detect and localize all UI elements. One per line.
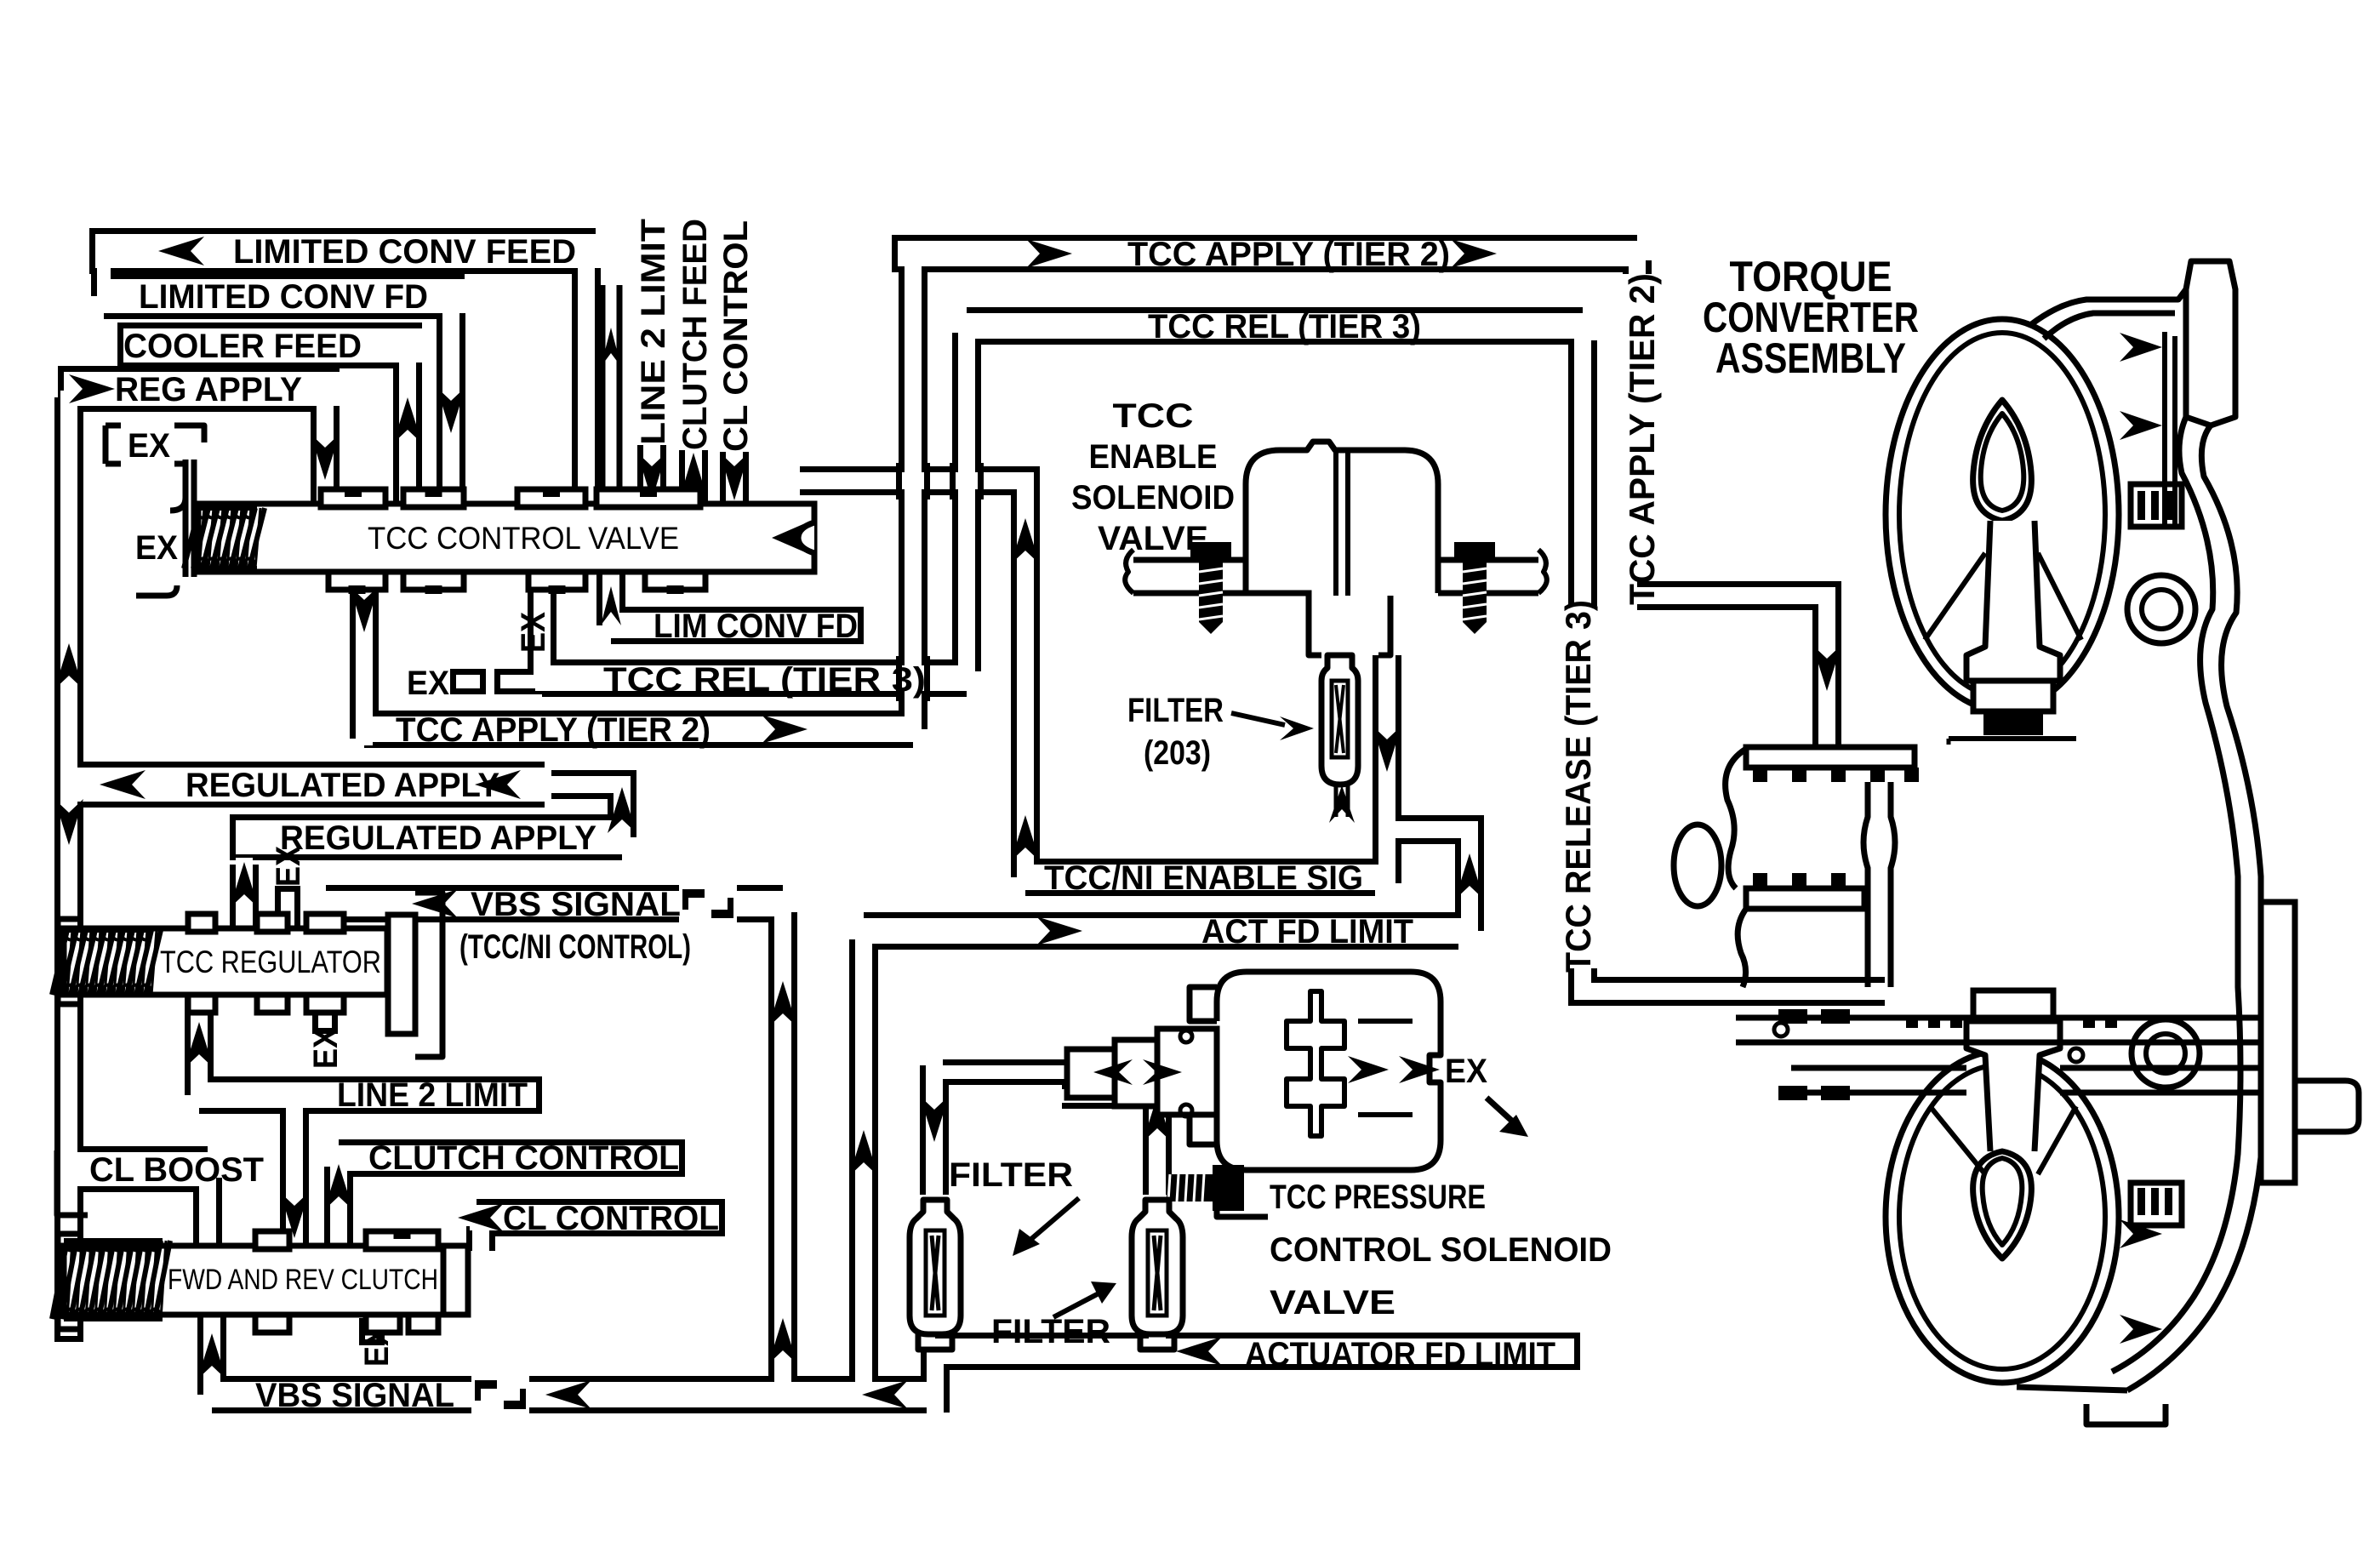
svg-text:LINE 2 LIMIT: LINE 2 LIMIT (337, 1076, 528, 1114)
arrow filter2 label pointer (1053, 1292, 1102, 1317)
converter spokes bottom (1930, 1106, 1985, 1174)
arrow (1373, 726, 1401, 772)
pressure solenoid inlet step (1190, 987, 1217, 1144)
svg-text:SOLENOID: SOLENOID (1071, 479, 1235, 517)
arrow (762, 715, 808, 744)
converter shaft seals (1778, 1009, 1807, 1024)
wire TCC APPLY (TIER 2) top channel (892, 235, 1637, 272)
valve TCC CONTROL VALVE body (198, 504, 814, 572)
connector symbol VBS bottom (471, 1376, 529, 1413)
arrow (1451, 239, 1497, 268)
wire LINE 2 LIMIT stub (637, 445, 666, 511)
EX hook below-left of spring (136, 585, 177, 596)
svg-text:LIM CONV FD: LIM CONV FD (654, 608, 858, 645)
converter pump drive slab upper (1746, 747, 1915, 768)
wire LIM CONV FD label channel (611, 607, 864, 644)
arrow (437, 387, 465, 433)
filter (203) capsule (1321, 655, 1358, 785)
converter hub blocks top (1973, 681, 2053, 711)
pressure solenoid chamber (1358, 1021, 1413, 1115)
wire LIMITED CONV FEED channel (89, 228, 596, 274)
wire TCC APPLY vertical riser A (899, 260, 927, 729)
svg-text:LIMITED CONV FEED: LIMITED CONV FEED (233, 233, 576, 271)
bolt left on plate (1190, 542, 1231, 634)
converter hub horizontal lines (1949, 736, 2076, 741)
svg-text:FILTER: FILTER (1127, 692, 1224, 729)
end plug TCC CONTROL VALVE spring (191, 459, 197, 577)
arrow (230, 862, 259, 908)
arrow (458, 1203, 504, 1232)
spring TCC CONTROL VALVE (184, 508, 265, 568)
arrow (54, 643, 83, 689)
svg-text:REGULATED APPLY: REGULATED APPLY (185, 767, 499, 804)
arrow (601, 586, 621, 625)
wire regulated apply leg (230, 865, 259, 932)
arrow (69, 374, 115, 403)
valve TCC REGULATOR lands (188, 914, 215, 932)
svg-text:TCC REL (TIER 3): TCC REL (TIER 3) (603, 661, 926, 699)
wire TCC REL (TIER 3) top channel (967, 307, 1583, 345)
converter bottom flat and lug (2017, 1387, 2166, 1424)
wire FWD valve bottom leg (197, 1315, 226, 1395)
arrow (1026, 239, 1072, 268)
svg-text:FILTER: FILTER (991, 1313, 1110, 1350)
wire TCC RELEASE bottom run (1583, 968, 1885, 991)
converter spokes top (1925, 553, 1985, 640)
valve FWD AND REV CLUTCH lands (255, 1231, 289, 1249)
arrow (849, 1130, 878, 1176)
svg-text:TCC RELEASE (TIER 3): TCC RELEASE (TIER 3) (1558, 600, 1598, 973)
wire regulated apply U link (545, 785, 622, 837)
solenoid lower body (1309, 596, 1390, 655)
svg-text:EX: EX (307, 1028, 345, 1069)
wire CL CONTROL stub (720, 452, 749, 511)
arrow (720, 453, 749, 500)
wire REG APPLY channel (58, 366, 340, 412)
solenoid mounting plate (1133, 560, 1538, 596)
wire LINE 2 LIMIT to FWD leg (280, 1104, 309, 1249)
svg-text:LIMITED CONV FD: LIMITED CONV FD (139, 278, 428, 316)
arrows inside converter bottom (2120, 1219, 2162, 1248)
converter central web (1863, 782, 1895, 987)
wire feed leg with up arrow (600, 285, 623, 511)
wire LIMITED CONV FD channel (104, 273, 465, 319)
converter stator stem top (1966, 521, 2060, 681)
wire filter2 bottom leg (1143, 1336, 1172, 1351)
wire VBS SIGNAL (TCC/NI CONTROL) channel (326, 885, 783, 922)
arrow (197, 1333, 226, 1379)
wire EX stub (450, 669, 486, 694)
wire TCC APPLY leg down (350, 568, 379, 739)
svg-text:TCC APPLY (TIER 2): TCC APPLY (TIER 2) (1622, 273, 1662, 605)
arrow (1011, 815, 1040, 861)
svg-text:REGULATED APPLY: REGULATED APPLY (280, 819, 596, 857)
arrow (1455, 853, 1484, 899)
wire TCC REL (TIER 3) lower channel (542, 659, 967, 697)
svg-text:ACT FD LIMIT: ACT FD LIMIT (1201, 913, 1413, 950)
wire filter2 top leg (1143, 1096, 1172, 1195)
wire TCC/NI ENABLE SIG channel (1025, 859, 1375, 896)
svg-text:EX: EX (128, 427, 170, 465)
valve TCC CONTROL VALVE right end notch (798, 504, 814, 572)
wire filter1 bottom leg (921, 1351, 950, 1413)
arrow (1812, 645, 1841, 691)
arrow (1036, 916, 1082, 945)
converter clutch plate ticks bottom (2137, 1188, 2172, 1215)
wire TCC APPLY (TIER 2) lower channel (364, 711, 913, 748)
wire solenoid drop leg (1373, 655, 1401, 883)
wire CLUTCH CONTROL channel (339, 1139, 685, 1177)
converter hub blocks bottom (1973, 990, 2053, 1021)
filter capsule (1132, 1200, 1183, 1334)
end cap FWD AND REV CLUTCH (443, 1246, 468, 1315)
converter turbine teardrop bottom (1973, 1151, 2032, 1259)
wire COOLER FEED leg (393, 354, 422, 511)
arrows inside pressure solenoid (1348, 1056, 1389, 1083)
arrow (311, 434, 340, 480)
converter pump cover oval (1674, 825, 1721, 906)
arrow (920, 1096, 949, 1142)
converter top lug (2186, 261, 2235, 425)
FWD spring seat bracket (58, 1234, 82, 1329)
svg-text:TCC/NI ENABLE SIG: TCC/NI ENABLE SIG (1044, 859, 1363, 897)
arrow (862, 1380, 908, 1409)
svg-text:ENABLE: ENABLE (1089, 438, 1218, 476)
wire VBS riser (768, 912, 797, 1388)
EX bracket shapes upper left (106, 425, 121, 464)
converter pump drive slab lower (1746, 888, 1864, 909)
svg-text:COOLER FEED: COOLER FEED (123, 328, 362, 365)
wire TCC REL vertical riser B (952, 333, 981, 671)
svg-text:TCC APPLY (TIER 2): TCC APPLY (TIER 2) (396, 711, 711, 749)
valve TCC CONTROL VALVE lands bottom (328, 572, 385, 590)
wire left vertical channel (54, 397, 83, 1342)
svg-text:EX: EX (135, 529, 178, 567)
wire CL CONTROL channel (477, 1199, 725, 1236)
wire VBS SIGNAL bottom channel (212, 1376, 935, 1413)
svg-text:TCC REL (TIER 3): TCC REL (TIER 3) (1148, 308, 1421, 345)
arrow (679, 453, 708, 500)
wire CLUTCH FEED stub (679, 450, 708, 511)
end piece TCC REGULATOR (388, 915, 415, 1034)
svg-text:EX: EX (1445, 1053, 1487, 1090)
svg-text:TCC APPLY (TIER 2): TCC APPLY (TIER 2) (1127, 236, 1450, 273)
wire ACT FD vertical D (849, 939, 878, 1388)
wire TCC APPLY corner stub (1623, 260, 1652, 274)
spring FWD AND REV CLUTCH (52, 1241, 170, 1319)
valve TCC REGULATOR body (64, 928, 387, 995)
wire LIM CONV FD down leg (437, 305, 465, 511)
converter clutch block bottom (2131, 1183, 2182, 1225)
wire valve outlet to TCC/NI riser C (800, 481, 1025, 877)
rail stubs at channel crossings (896, 463, 902, 499)
arrow filter1 label pointer (1025, 1198, 1079, 1244)
bolt right on plate (1454, 542, 1495, 634)
left bracket TCC REGULATOR spring seat (58, 919, 82, 1004)
wire EX connector stub (494, 669, 542, 694)
wire bracket FEED to FD (91, 251, 117, 296)
wire VBS to regulator leg (311, 912, 340, 932)
converter output stub right (2261, 1081, 2359, 1132)
svg-text:CL CONTROL: CL CONTROL (717, 220, 755, 452)
arrow FILTER label pointer (1231, 713, 1285, 725)
arrow (393, 397, 422, 443)
svg-text:FILTER: FILTER (949, 1156, 1073, 1194)
bolt at pressure solenoid (1167, 1165, 1244, 1211)
arrow (1143, 1096, 1172, 1142)
converter damper circles top (2127, 575, 2195, 643)
wire REGULATED APPLY lower (230, 814, 622, 860)
svg-text:TCC CONTROL VALVE: TCC CONTROL VALVE (368, 521, 679, 556)
converter clutch plate ticks (2137, 491, 2172, 520)
svg-text:EX: EX (270, 846, 307, 887)
svg-text:CONTROL SOLENOID: CONTROL SOLENOID (1270, 1231, 1612, 1269)
arrow (100, 770, 146, 799)
wire TCC RELEASE vertical upper (1568, 340, 1597, 606)
pressure solenoid lower bracket (1217, 1170, 1268, 1217)
svg-text:EX: EX (515, 612, 552, 653)
wire ACTUATOR FD LIMIT channel (935, 1333, 1580, 1370)
svg-text:TCC: TCC (1113, 397, 1194, 435)
wire CL BOOST channel (58, 1146, 208, 1192)
svg-text:VBS SIGNAL: VBS SIGNAL (255, 1377, 454, 1414)
svg-text:TCC PRESSURE: TCC PRESSURE (1270, 1179, 1486, 1216)
pressure solenoid spool (1287, 991, 1344, 1136)
converter small circles on shaft (1774, 1023, 1788, 1036)
converter passage lines right top (2162, 332, 2167, 528)
arrow (768, 981, 797, 1027)
valve FWD AND REV CLUTCH body (64, 1246, 468, 1315)
converter input shaft lines (1736, 1015, 2261, 1021)
solenoid TCC PRESSURE CONTROL body (1217, 972, 1441, 1170)
svg-text:ASSEMBLY: ASSEMBLY (1715, 334, 1906, 382)
wire filter2 top run F (1062, 1083, 1157, 1109)
wire EX stub above regulator (275, 886, 300, 928)
wire LIM CONV FD leg2 (596, 572, 625, 625)
pressure solenoid left connector (1157, 1029, 1217, 1115)
svg-text:ACTUATOR FD LIMIT: ACTUATOR FD LIMIT (1245, 1336, 1555, 1373)
arrow EX diagonal (1487, 1098, 1516, 1125)
svg-text:EX: EX (407, 665, 449, 702)
arrow (158, 237, 204, 265)
arrow (324, 1164, 353, 1210)
converter turbine teardrop top (1973, 400, 2032, 521)
svg-text:CL BOOST: CL BOOST (89, 1151, 264, 1189)
torque converter torus ring top (1886, 319, 2119, 711)
wire REGULATED APPLY upper (69, 762, 545, 808)
arrow (1176, 1337, 1222, 1366)
converter cover top flat (2030, 289, 2186, 339)
arrows inside converter top (2120, 333, 2162, 362)
arrow (601, 328, 621, 367)
svg-text:VALVE: VALVE (1270, 1284, 1395, 1321)
connector symbol VBS tcc/ni (679, 885, 737, 922)
spring TCC REGULATOR (52, 930, 161, 995)
wire CL CONTROL leg (466, 1226, 495, 1251)
converter clutch block (2131, 484, 2182, 527)
wire regulator bottom leg (185, 991, 214, 1095)
wire CLUTCH CONTROL leg (324, 1167, 353, 1249)
svg-text:(TCC/NI CONTROL): (TCC/NI CONTROL) (459, 928, 691, 966)
solenoid stem (1333, 450, 1338, 596)
svg-text:CL CONTROL: CL CONTROL (503, 1200, 719, 1237)
solenoid TCC ENABLE SOLENOID VALVE cap (1246, 442, 1438, 593)
arrow (475, 770, 521, 799)
svg-text:VBS SIGNAL: VBS SIGNAL (471, 886, 681, 923)
arrow (608, 787, 636, 833)
svg-text:(203): (203) (1144, 734, 1211, 772)
wire TCC REL leg (528, 568, 556, 678)
valve TCC CONTROL VALVE lands top (321, 489, 385, 507)
filter 203 bottom stem and arrow (1334, 785, 1338, 817)
arrow (545, 1380, 591, 1409)
svg-text:LINE 2 LIMIT: LINE 2 LIMIT (635, 219, 672, 445)
filter capsule (910, 1200, 961, 1334)
svg-text:CLUTCH FEED: CLUTCH FEED (676, 219, 714, 450)
CL BOOST outer bracket (57, 1150, 88, 1215)
arrow (412, 889, 458, 918)
arrow (1011, 518, 1040, 564)
arrow (350, 586, 379, 632)
wire EX stub below FWD valve (359, 1318, 385, 1345)
converter stator stem bottom (1966, 1021, 2060, 1151)
wire LIMITED CONV FEED down leg (572, 251, 601, 511)
svg-text:TCC REGULATOR: TCC REGULATOR (160, 945, 381, 979)
wire REG APPLY leg (311, 397, 340, 511)
arrow (280, 1192, 309, 1238)
arrow (185, 1022, 214, 1068)
wire EX stub below regulator (312, 991, 338, 1034)
converter damper circles bottom (2132, 1019, 2200, 1087)
wire COOLER FEED channel (117, 323, 422, 368)
arrow (768, 1318, 797, 1364)
wire LINE 2 LIMIT channel (199, 1076, 542, 1114)
svg-text:CLUTCH CONTROL: CLUTCH CONTROL (368, 1139, 679, 1177)
arrow (54, 799, 83, 845)
converter right block (2261, 902, 2295, 1183)
wire ACT FD LIMIT channel (864, 912, 1458, 950)
arrow (637, 453, 666, 500)
arrow into TCC CONTROL VALVE right end (772, 521, 811, 555)
wire ACT FD right riser (1399, 830, 1470, 931)
converter torus ring bottom (1886, 1051, 2119, 1383)
wire filter1 top run E (934, 1059, 1089, 1085)
wire filter1 top leg (920, 1065, 949, 1195)
svg-text:FWD AND REV CLUTCH: FWD AND REV CLUTCH (168, 1264, 438, 1296)
wire TCC APPLY into converter (1637, 596, 1827, 749)
converter pump cover wavy outline (1726, 749, 1746, 888)
converter right cover (2127, 425, 2264, 1390)
converter shaft spline rows (1906, 1018, 2117, 1028)
wire CL BOOST leg (193, 1178, 222, 1249)
svg-text:REG APPLY: REG APPLY (115, 371, 302, 408)
